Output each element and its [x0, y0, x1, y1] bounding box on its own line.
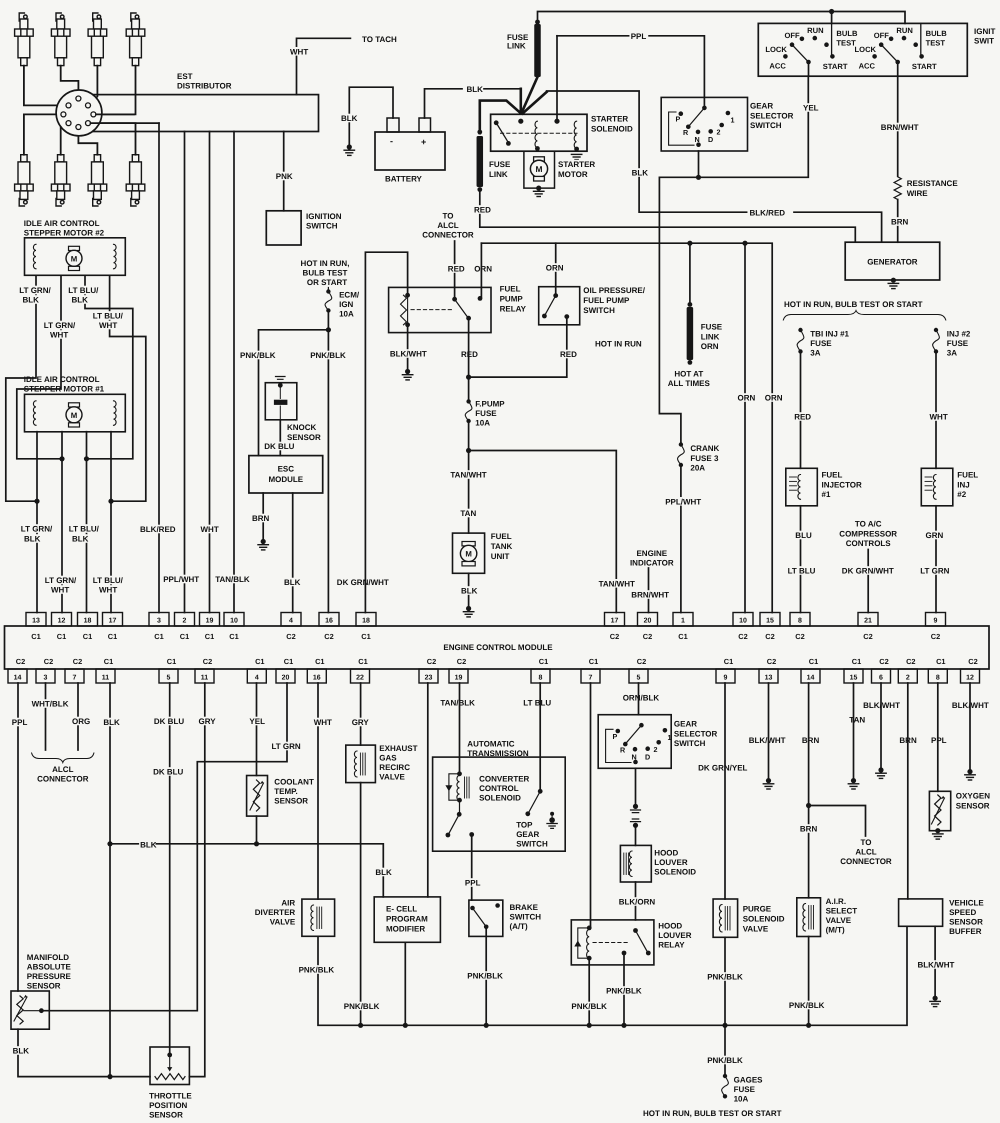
svg-text:LT GRN/: LT GRN/	[21, 525, 53, 534]
node oil switch contact	[564, 314, 569, 319]
svg-text:TOP: TOP	[516, 821, 533, 830]
wire PNK/BLK bus	[318, 926, 907, 1025]
svg-text:R: R	[683, 128, 689, 137]
node rail junction	[829, 9, 834, 14]
label RED starter	[473, 205, 489, 214]
svg-text:BLU: BLU	[795, 531, 812, 540]
svg-text:FUSE: FUSE	[475, 409, 497, 418]
wire BRN branch to ALCL	[809, 806, 866, 837]
label HOT IN RUN BULB TEST OR START	[301, 259, 349, 268]
wire plug5 to cap W	[24, 114, 61, 154]
label WHT tach	[289, 47, 305, 56]
svg-text:2: 2	[717, 128, 721, 137]
svg-text:12: 12	[966, 675, 974, 682]
svg-text:BLK/WHT: BLK/WHT	[918, 961, 955, 970]
svg-text:LT GRN/: LT GRN/	[44, 321, 76, 330]
wire PNK/BLK EGR to bus	[360, 783, 362, 1026]
spark plug 2	[51, 13, 70, 66]
node gear sel 2 splice bottom	[633, 823, 638, 828]
wire DK GRN/YEL to purge	[724, 683, 726, 899]
label IGNIT SWIT	[973, 27, 999, 36]
wire PNK/BLK brake to bus	[485, 927, 487, 1026]
node oil switch arm end	[542, 314, 547, 319]
svg-text:FUEL PUMP: FUEL PUMP	[583, 296, 630, 305]
svg-text:RESISTANCE: RESISTANCE	[907, 179, 959, 188]
svg-text:C1: C1	[361, 632, 370, 641]
ECM top connector C1-17	[103, 613, 123, 627]
svg-text:#2: #2	[957, 490, 966, 499]
starter motor	[534, 157, 545, 162]
svg-text:TANK: TANK	[491, 542, 513, 551]
svg-text:SWIT: SWIT	[974, 37, 994, 46]
ECM bottom connector C1-9	[716, 669, 735, 683]
label INJ #2 FUSE 3A	[946, 329, 973, 338]
wire PNK/BLK left	[259, 311, 329, 456]
label ORN c2-10	[737, 393, 753, 402]
label DK GRN/WHT	[336, 578, 384, 587]
label BLK/WHT c2-12	[951, 701, 984, 710]
wire BLK solenoid to generator	[547, 91, 882, 242]
svg-text:SOLENOID: SOLENOID	[479, 794, 521, 803]
ground C2-6	[878, 767, 883, 772]
label VEHICLE SPEED SENSOR BUFFER	[948, 898, 984, 907]
wire coolant to BLK bus	[256, 816, 258, 844]
ignition switch assembly	[758, 23, 967, 76]
svg-text:P: P	[613, 732, 618, 741]
ground C2-12	[967, 769, 972, 774]
label PNK/BLK purge	[706, 972, 739, 981]
wire WHT/BLK to ALCL	[45, 683, 47, 750]
label PNK/BLK b	[309, 351, 342, 360]
svg-text:18: 18	[84, 618, 92, 625]
svg-text:TEST: TEST	[836, 39, 856, 48]
svg-text:A.I.R.: A.I.R.	[826, 897, 846, 906]
wire DK BLU to TPS	[169, 683, 171, 1052]
wire TAN ECM C1-15 ground	[853, 683, 855, 779]
wire TAN/BLK to converter solenoid	[459, 683, 461, 774]
node solenoid PPL terminal	[554, 119, 559, 124]
svg-text:C1: C1	[108, 632, 117, 641]
svg-text:9: 9	[724, 675, 728, 682]
label ECM/IGN 10A	[338, 290, 357, 299]
svg-text:OFF: OFF	[785, 31, 801, 40]
EGR coil	[354, 751, 357, 777]
ECM bottom connector C2-13	[759, 669, 778, 683]
svg-text:LT BLU/: LT BLU/	[93, 312, 124, 321]
ECM bottom connector C1-15	[844, 669, 863, 683]
label BLK/RED right	[749, 208, 782, 217]
svg-text:FUEL: FUEL	[822, 471, 843, 480]
svg-text:DISTRIBUTOR: DISTRIBUTOR	[177, 82, 232, 91]
hood louver solenoid	[620, 845, 651, 882]
svg-text:WHT/BLK: WHT/BLK	[32, 700, 69, 709]
svg-text:GAGES: GAGES	[734, 1076, 764, 1085]
fuse ECM/IGN 10A	[326, 289, 330, 293]
svg-text:DK BLU: DK BLU	[264, 442, 294, 451]
label STARTER SOLENOID	[590, 114, 626, 123]
EST distributor module	[80, 95, 319, 132]
ECM top connector C1-18	[78, 613, 98, 627]
svg-text:BULB: BULB	[926, 29, 948, 38]
spark plug 1	[15, 13, 34, 66]
svg-text:3A: 3A	[810, 349, 820, 358]
MAP wiper link	[24, 1010, 41, 1012]
svg-text:LOCK: LOCK	[765, 45, 787, 54]
svg-text:C2: C2	[879, 657, 888, 666]
wire YEL to coolant	[256, 683, 258, 776]
label PNK/BLK air select	[788, 1001, 821, 1010]
svg-text:TO TACH: TO TACH	[362, 35, 397, 44]
svg-text:LINK: LINK	[507, 42, 526, 51]
svg-text:DK BLU: DK BLU	[153, 768, 183, 777]
label PNK/BLK egr	[343, 1002, 376, 1011]
idle air control stepper motor 2	[25, 238, 126, 275]
node top gear switch pivot	[538, 789, 543, 794]
svg-text:START: START	[823, 62, 848, 71]
oil switch arm	[545, 296, 556, 315]
starter motor housing	[524, 151, 555, 188]
node solenoid coil1 bottom	[535, 146, 540, 151]
svg-text:#1: #1	[822, 490, 831, 499]
node gear selector junction	[696, 175, 701, 180]
fuel tank pump motor	[462, 542, 475, 546]
wire WHT to tach	[297, 38, 351, 94]
svg-text:C1: C1	[31, 632, 40, 641]
node bus relay switch	[621, 1023, 626, 1028]
svg-text:LT BLU/: LT BLU/	[69, 525, 100, 534]
svg-text:C1: C1	[936, 657, 945, 666]
fuel pump relay	[389, 287, 491, 332]
label ENGINE CONTROL MODULE	[447, 643, 550, 652]
wire BLU LT BLU to ECM C2-8	[800, 506, 802, 613]
oxygen sensor	[929, 791, 950, 830]
label YEL	[248, 717, 264, 726]
svg-text:WHT: WHT	[99, 321, 117, 330]
node fpump junction	[466, 375, 471, 380]
svg-text:BRN: BRN	[252, 514, 270, 523]
label TBI INJ #1 FUSE 3A	[809, 329, 852, 338]
air select coil	[803, 904, 806, 932]
wire plug6 to cap SW	[61, 123, 66, 155]
svg-text:8: 8	[539, 675, 543, 682]
wire gear selector 2 output	[635, 768, 637, 804]
svg-text:LINK: LINK	[489, 170, 508, 179]
svg-text:FUEL: FUEL	[500, 285, 521, 294]
wire plug2 to cap top	[61, 66, 79, 96]
engine control module	[5, 626, 990, 669]
label ESC MODULE	[278, 464, 294, 473]
svg-text:OIL PRESSURE/: OIL PRESSURE/	[583, 286, 645, 295]
svg-text:D: D	[708, 135, 713, 144]
wire PNK/BLK to gages fuse	[724, 1025, 726, 1074]
ECM bottom connector C2-2	[898, 669, 917, 683]
ESC module	[249, 456, 323, 493]
label FUEL PUMP RELAY	[499, 284, 520, 293]
label BLK/RED	[139, 525, 172, 534]
svg-text:M: M	[536, 164, 543, 174]
hl relay dashed link	[593, 942, 630, 944]
label TO TACH	[361, 35, 394, 44]
label BLK fuel tank	[460, 586, 476, 595]
label PPL/WHT crank	[664, 497, 697, 506]
ECM top connector C1-3	[149, 613, 169, 627]
svg-text:UNIT: UNIT	[491, 552, 510, 561]
svg-text:MODULE: MODULE	[268, 475, 303, 484]
svg-text:HOT IN RUN, BULB TEST OR START: HOT IN RUN, BULB TEST OR START	[643, 1109, 782, 1118]
svg-text:C1: C1	[589, 657, 598, 666]
svg-text:PPL: PPL	[931, 736, 947, 745]
node at switch pivot	[457, 812, 462, 817]
label OIL PRESSURE FUEL PUMP SWITCH	[582, 286, 642, 295]
wire YEL net	[659, 76, 808, 442]
label KNOCK SENSOR	[286, 423, 312, 432]
svg-text:C2: C2	[765, 632, 774, 641]
svg-text:C1: C1	[539, 657, 548, 666]
svg-text:19: 19	[206, 618, 214, 625]
wire LT BLU to top gear switch	[539, 683, 541, 791]
converter solenoid coil	[449, 774, 460, 800]
svg-text:TAN: TAN	[849, 716, 865, 725]
wire ORN drop to relay	[480, 243, 482, 297]
svg-text:RED: RED	[794, 413, 811, 422]
svg-text:(M/T): (M/T)	[826, 926, 845, 935]
svg-text:2: 2	[183, 618, 187, 625]
ECM bottom connector C2-11	[195, 669, 214, 683]
svg-text:GRY: GRY	[199, 717, 217, 726]
label DK BLU	[263, 442, 294, 451]
svg-text:2: 2	[654, 745, 658, 754]
label TAN/WHT	[449, 470, 482, 479]
ECM top connector C1-12	[52, 613, 72, 627]
label BRN c2-2	[898, 736, 914, 745]
ground VSS	[933, 996, 938, 1001]
wire ORN rail	[481, 243, 772, 612]
svg-text:THROTTLE: THROTTLE	[149, 1092, 192, 1101]
wire TAN/WHT down	[468, 421, 470, 533]
svg-text:OFF: OFF	[874, 31, 890, 40]
label COOLANT TEMP SENSOR	[273, 777, 309, 786]
resistance wire	[894, 177, 901, 200]
label TAN	[459, 509, 475, 518]
label BRN/WHT	[880, 123, 913, 132]
svg-text:17: 17	[611, 618, 619, 625]
svg-text:P: P	[676, 115, 681, 124]
svg-text:LT GRN/: LT GRN/	[19, 286, 51, 295]
wire battery negative BLK	[349, 87, 393, 145]
ECM top connector C2-16	[319, 613, 339, 627]
ground starter motor	[536, 186, 541, 191]
svg-text:MOTOR: MOTOR	[558, 170, 588, 179]
node PNK/BLK junction	[326, 327, 331, 332]
wire ORN/BLK to gear selector 2	[638, 683, 640, 715]
svg-text:16: 16	[325, 618, 333, 625]
svg-text:ECM/: ECM/	[339, 291, 360, 300]
svg-text:DK BLU: DK BLU	[154, 717, 184, 726]
svg-text:ESC: ESC	[278, 465, 295, 474]
wire YEL from ignition	[808, 62, 810, 76]
spark plug 4	[126, 13, 145, 66]
label BLK/WHT c2-6	[862, 701, 895, 710]
wire BRN/WHT to resistance wire	[897, 76, 899, 176]
wire RED oil switch	[471, 317, 567, 378]
svg-text:PUMP: PUMP	[500, 295, 524, 304]
svg-text:SENSOR: SENSOR	[287, 433, 321, 442]
svg-text:RECIRC: RECIRC	[379, 763, 410, 772]
knock sensor case marks	[276, 377, 286, 380]
svg-text:DIVERTER: DIVERTER	[255, 908, 296, 917]
gear selector switch 2	[598, 715, 671, 769]
svg-text:SOLENOID: SOLENOID	[743, 915, 785, 924]
label RED relay out	[460, 350, 476, 359]
purge solenoid valve	[713, 899, 738, 937]
svg-text:YEL: YEL	[249, 717, 265, 726]
ECM bottom connector C1-14	[801, 669, 820, 683]
brake switch	[469, 900, 503, 936]
label BLK battery positive	[466, 85, 482, 94]
node MAP wiper	[39, 1008, 44, 1013]
svg-text:BLK/WHT: BLK/WHT	[390, 350, 427, 359]
label TAN c1-15	[848, 715, 864, 724]
svg-text:FUSE 3: FUSE 3	[690, 454, 719, 463]
svg-text:RUN: RUN	[896, 26, 912, 35]
label BRN 2	[799, 824, 815, 833]
svg-text:13: 13	[765, 675, 773, 682]
label CRANK FUSE 3 20A	[689, 444, 715, 453]
svg-text:PRESSURE: PRESSURE	[27, 972, 72, 981]
ECM top connector C2-21	[858, 613, 878, 627]
label LT GRN	[271, 742, 302, 751]
svg-text:3: 3	[44, 675, 48, 682]
svg-text:WHT: WHT	[290, 47, 308, 56]
wire PPL to O2 sensor	[937, 683, 939, 791]
svg-text:BLK/WHT: BLK/WHT	[749, 736, 786, 745]
gear selector switch 1	[661, 97, 747, 151]
node solenoid feed	[518, 119, 523, 124]
label DK GRN/WHT ac	[841, 566, 889, 575]
label EST DISTRIBUTOR	[176, 72, 192, 81]
label THROTTLE POSITION SENSOR	[148, 1091, 188, 1100]
svg-text:C2: C2	[286, 632, 295, 641]
svg-text:SENSOR: SENSOR	[949, 918, 983, 927]
label E-CELL PROGRAM MODIFIER	[385, 904, 417, 913]
spark plug 7	[88, 155, 107, 206]
converter solenoid diode	[445, 785, 452, 791]
svg-text:4: 4	[289, 618, 293, 625]
svg-text:BRN: BRN	[800, 825, 818, 834]
svg-text:EXHAUST: EXHAUST	[379, 744, 417, 753]
relay switch arm	[455, 299, 468, 317]
ground battery	[347, 144, 352, 149]
hood louver relay	[571, 920, 654, 965]
svg-text:18: 18	[362, 618, 370, 625]
node converter solenoid top	[457, 771, 462, 776]
fuse link bar top	[534, 24, 541, 77]
at switch arm	[449, 814, 460, 834]
node ORN box10 junction	[742, 241, 747, 246]
node ORN fuse junction	[687, 241, 692, 246]
svg-text:9: 9	[934, 618, 938, 625]
svg-text:ACC: ACC	[769, 62, 786, 71]
hl relay coil loop	[578, 928, 589, 958]
wire IAC1 to ECM C1-13	[36, 432, 38, 613]
svg-text:TO: TO	[443, 212, 454, 221]
svg-text:WHT: WHT	[314, 718, 332, 727]
svg-text:RELAY: RELAY	[500, 305, 527, 314]
svg-text:AIR: AIR	[281, 899, 295, 908]
svg-text:3: 3	[157, 618, 161, 625]
node bus egr	[358, 1023, 363, 1028]
solenoid switch	[494, 120, 499, 125]
svg-text:FUSE: FUSE	[810, 339, 832, 348]
wire RED injector1	[800, 352, 802, 469]
svg-text:FUSE: FUSE	[701, 323, 723, 332]
node relay ORN contact	[478, 296, 483, 301]
svg-text:BLK: BLK	[103, 718, 120, 727]
label BLK/ORN	[618, 897, 651, 906]
svg-text:BLK: BLK	[632, 169, 649, 178]
wire TAN/WHT to ECM C2-17	[469, 451, 617, 613]
svg-text:TEST: TEST	[926, 39, 946, 48]
svg-text:FUEL: FUEL	[957, 471, 978, 480]
svg-text:PPL: PPL	[631, 32, 647, 41]
svg-text:BLK: BLK	[375, 868, 392, 877]
label BLK bottom	[102, 718, 118, 727]
wire E-CELL output to bus	[404, 942, 406, 1025]
svg-text:C2: C2	[637, 657, 646, 666]
node IAC splice b	[59, 456, 64, 461]
oil pressure fuel pump switch	[539, 287, 580, 325]
wire IAC2 LT BLU/WHT	[110, 275, 146, 501]
fuse GAGES 10A	[723, 1074, 727, 1078]
label PPL at	[464, 878, 480, 887]
svg-text:16: 16	[313, 675, 321, 682]
wire cap E to plug4 feed	[96, 113, 134, 115]
wire PPL to MAP	[17, 683, 19, 991]
ECM top connector C1-1	[673, 613, 693, 627]
fuel injector 1	[786, 468, 818, 506]
ECM top connector C2-17	[605, 613, 625, 627]
node bus brake	[484, 1023, 489, 1028]
wire LT GRN to MAP wiper	[44, 683, 287, 1011]
node hl relay coil top	[587, 926, 592, 931]
ECM bottom connector C2-19	[449, 669, 468, 683]
svg-text:21: 21	[864, 618, 872, 625]
svg-text:6: 6	[879, 675, 883, 682]
svg-text:C1: C1	[315, 657, 324, 666]
wire plug1 to cap NW	[24, 66, 66, 106]
svg-text:CONTROL: CONTROL	[479, 784, 519, 793]
knock sensor	[265, 383, 297, 420]
svg-text:BRAKE: BRAKE	[510, 903, 539, 912]
TPS element	[155, 1074, 185, 1080]
label LT BLU/BLK 2	[67, 286, 98, 295]
svg-text:IGN: IGN	[339, 300, 353, 309]
svg-text:BLK: BLK	[23, 296, 40, 305]
solenoid hold-in coil	[574, 121, 576, 148]
svg-text:SELECTOR: SELECTOR	[674, 730, 718, 739]
svg-text:GENERATOR: GENERATOR	[867, 258, 918, 267]
svg-text:CONNECTOR: CONNECTOR	[422, 231, 474, 240]
wire ORN to ECM C2-10	[744, 243, 746, 612]
node bus relay coil	[587, 1023, 592, 1028]
svg-text:C1: C1	[809, 657, 818, 666]
label BLK right	[631, 168, 647, 177]
svg-text:RED: RED	[560, 350, 577, 359]
brake switch arm	[473, 908, 486, 925]
svg-text:STARTER: STARTER	[591, 115, 628, 124]
label PNK	[275, 172, 291, 181]
wire PPL/WHT to ECM C1-1	[680, 465, 682, 613]
